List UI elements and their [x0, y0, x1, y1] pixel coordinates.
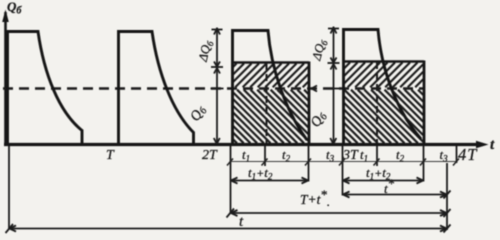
hatched charge area 3 upper and lower bands: [233, 64, 308, 88]
hatched area 3 top edge: [233, 61, 310, 64]
svg-text:4T: 4T: [458, 145, 478, 164]
hatched area 3 right edge: [308, 62, 311, 144]
dimension line Q levels pulse 4: [327, 27, 340, 145]
dashed divider t1/t2 pulse 3: [266, 63, 268, 143]
dimension line t1+t2 group B: [343, 178, 424, 184]
pulse 3 curve: [233, 31, 308, 144]
arrowhead on level line at hatch 3 edge: [312, 86, 318, 92]
extension line at origin: [8, 146, 10, 229]
dimension line t1+t2 group A: [231, 178, 309, 184]
hatched charge area 4 upper and lower bands: [344, 63, 423, 88]
extension line before 4T: [456, 146, 458, 163]
pulse 4 curve: [344, 30, 422, 144]
dimension line Q levels pulse 3: [211, 28, 224, 145]
extension line t2 end group B: [423, 146, 425, 182]
dashed level line: [3, 87, 424, 90]
dimension line t-star: [343, 191, 451, 199]
pulse 1 curve: [8, 32, 83, 144]
x axis arrowhead: [476, 141, 489, 149]
dashed divider t1/t2 pulse 4: [376, 62, 378, 143]
extension line t1/t2 group A: [264, 146, 266, 166]
extension line at 3T: [342, 146, 344, 196]
hatched area 4 right edge: [423, 61, 426, 144]
svg-text:2T: 2T: [202, 148, 218, 163]
extension line at 2T: [230, 146, 232, 214]
dimension line T plus t-star: [227, 209, 451, 218]
row1 thin dimension line: [231, 161, 457, 163]
extension line t1/t2 group B: [376, 146, 378, 166]
y axis: [4, 12, 7, 146]
y axis arrowhead: [2, 10, 9, 23]
hatched area 4 top edge: [344, 60, 425, 63]
extension line t2 end group A: [308, 146, 310, 182]
dimension line t total: [6, 224, 451, 233]
x axis: [4, 143, 480, 146]
extension line right closing: [446, 163, 448, 230]
row1 slash ticks at dividers: [227, 159, 459, 166]
pulse 2 curve: [119, 32, 194, 144]
svg-text:T: T: [106, 148, 115, 163]
svg-text:3T: 3T: [342, 148, 359, 163]
